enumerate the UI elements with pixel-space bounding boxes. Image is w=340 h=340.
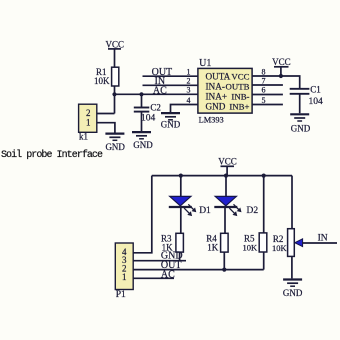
ground (C2) bbox=[132, 132, 153, 150]
ground (R2) bbox=[283, 280, 303, 299]
svg-text:IN: IN bbox=[155, 76, 166, 87]
node junction R1/AC bbox=[112, 92, 116, 96]
wire R2 wiper IN arrow bbox=[295, 234, 337, 247]
svg-text:10K: 10K bbox=[243, 242, 259, 252]
wire P1 pin2 OUT net bbox=[133, 260, 264, 271]
svg-text:VCC: VCC bbox=[272, 57, 291, 67]
svg-text:GND: GND bbox=[283, 288, 303, 298]
svg-text:INA-: INA- bbox=[206, 82, 225, 92]
wire net AC to U1 pin3 bbox=[115, 85, 198, 96]
svg-text:6: 6 bbox=[262, 86, 266, 95]
wire U1 pin4 to ground bbox=[171, 105, 198, 113]
node junction bus/VCC/D2 bbox=[224, 174, 228, 178]
svg-text:4: 4 bbox=[187, 96, 191, 105]
svg-text:104: 104 bbox=[309, 97, 324, 107]
wire R2 bottom to ground bbox=[291, 256, 293, 278]
svg-text:VCC: VCC bbox=[231, 72, 249, 82]
resistor R5 bbox=[243, 176, 267, 253]
ground (U1 pin4) bbox=[161, 113, 181, 129]
wire U1 pin8 to VCC and C1 bbox=[252, 76, 300, 88]
wire U1 pin7 bbox=[252, 84, 283, 86]
wire k1 pin1 to ground bbox=[97, 123, 115, 133]
wire bus left to P1 pin4 bbox=[133, 176, 152, 253]
connector P1 bbox=[115, 243, 133, 300]
svg-text:GND: GND bbox=[206, 101, 226, 111]
wire P1 pin1 AC net bbox=[133, 270, 175, 281]
svg-text:3: 3 bbox=[187, 86, 191, 95]
svg-text:1: 1 bbox=[86, 118, 91, 128]
wire R4 bottom to OUT net bbox=[223, 252, 225, 270]
svg-text:OUTB: OUTB bbox=[226, 82, 250, 92]
node junction pin8/VCC bbox=[279, 74, 283, 78]
wire bus right to R2 top bbox=[291, 176, 293, 229]
ground (k1) bbox=[105, 134, 125, 152]
svg-text:D1: D1 bbox=[199, 206, 211, 216]
svg-text:GND: GND bbox=[291, 123, 311, 133]
wire R1 bottom to k1 pin2 level bbox=[114, 86, 116, 114]
svg-text:C2: C2 bbox=[150, 102, 161, 112]
svg-text:OUTA: OUTA bbox=[206, 72, 231, 82]
svg-text:P1: P1 bbox=[116, 290, 126, 300]
ground (C1) bbox=[290, 114, 311, 133]
LED D2 bbox=[214, 176, 258, 234]
svg-text:VCC: VCC bbox=[106, 39, 125, 49]
svg-text:INA+: INA+ bbox=[206, 92, 228, 102]
wire U1 pin6 bbox=[252, 94, 283, 96]
power VCC (top-left, above R1) bbox=[106, 39, 125, 49]
node junction R4/OUT bbox=[222, 268, 226, 272]
power VCC (bottom section) bbox=[218, 156, 237, 175]
svg-text:VCC: VCC bbox=[218, 156, 237, 166]
node junction bus/R5 bbox=[262, 174, 266, 178]
capacitor C2 bbox=[134, 94, 161, 131]
svg-text:104: 104 bbox=[141, 114, 156, 124]
connector k1 bbox=[79, 104, 97, 141]
wire net OUT to U1 pin1 bbox=[143, 67, 198, 78]
svg-text:Soil probe Interface: Soil probe Interface bbox=[1, 149, 103, 161]
resistor R4 bbox=[206, 233, 228, 252]
svg-text:k1: k1 bbox=[79, 131, 88, 141]
svg-text:5: 5 bbox=[262, 96, 266, 105]
power VCC (above U1 pin8) bbox=[272, 57, 291, 76]
resistor R1 bbox=[94, 67, 119, 86]
svg-text:2: 2 bbox=[187, 77, 191, 86]
svg-text:INB-: INB- bbox=[231, 92, 249, 102]
svg-text:1K: 1K bbox=[207, 243, 219, 253]
wire R5 bottom to OUT net bbox=[263, 252, 265, 270]
op-amp U1 LM393 bbox=[198, 58, 252, 125]
svg-text:C1: C1 bbox=[310, 84, 321, 94]
wire k1 pin2 bbox=[97, 113, 115, 115]
svg-text:10K: 10K bbox=[272, 243, 288, 253]
wire R3 bottom to GND net bbox=[179, 252, 181, 261]
svg-text:INB+: INB+ bbox=[229, 101, 249, 111]
LED D1 bbox=[169, 176, 211, 234]
node junction bus/D1 bbox=[179, 174, 183, 178]
svg-text:GND: GND bbox=[161, 119, 181, 129]
svg-text:IN: IN bbox=[318, 234, 328, 244]
resistor R3 bbox=[161, 233, 183, 252]
svg-text:LM393: LM393 bbox=[199, 116, 224, 125]
svg-text:1: 1 bbox=[187, 68, 191, 77]
node junction AC/C2 bbox=[139, 92, 143, 96]
svg-text:U1: U1 bbox=[199, 58, 211, 69]
svg-text:GND: GND bbox=[133, 140, 153, 150]
wire U1 pin5 bbox=[252, 104, 283, 106]
svg-text:D2: D2 bbox=[247, 206, 259, 216]
wire P1 pin3 GND net bbox=[133, 250, 186, 261]
wire VCC to R1 top bbox=[114, 49, 116, 68]
svg-text:GND: GND bbox=[105, 142, 125, 152]
svg-text:10K: 10K bbox=[94, 76, 110, 86]
wire net IN to U1 pin2 bbox=[143, 76, 198, 87]
capacitor C1 bbox=[290, 84, 323, 113]
potentiometer R2 bbox=[272, 229, 294, 257]
wire VCC bus bbox=[152, 175, 292, 177]
svg-text:1: 1 bbox=[122, 272, 127, 282]
svg-text:AC: AC bbox=[161, 270, 175, 281]
